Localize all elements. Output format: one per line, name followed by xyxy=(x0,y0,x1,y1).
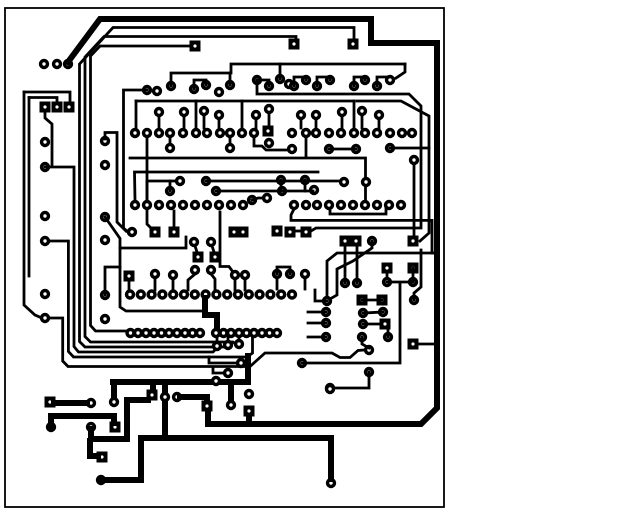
square pad S4 xyxy=(408,236,419,247)
hook F195 xyxy=(188,274,195,290)
via G369b xyxy=(364,367,374,377)
via T377 xyxy=(372,81,382,91)
stub B256 xyxy=(255,119,258,128)
stub B159 xyxy=(158,116,161,128)
via R1-329 xyxy=(324,128,334,138)
via R5-130.5 xyxy=(125,328,135,338)
via B316 xyxy=(311,110,321,120)
square pad F129 xyxy=(124,271,135,282)
via R5-223.5 xyxy=(218,328,228,338)
via R2-292 xyxy=(287,144,297,154)
stub B184 xyxy=(183,116,186,128)
via R1-147 xyxy=(142,128,152,138)
hook F3 xyxy=(277,267,290,274)
via B204 xyxy=(199,106,209,116)
zig wire R2 xyxy=(254,137,287,150)
stub G239 xyxy=(238,337,241,341)
via T354 xyxy=(349,81,359,91)
via R3-159 xyxy=(154,200,164,210)
via N330b xyxy=(325,384,335,394)
bus y191 xyxy=(216,190,313,193)
square pad K1 xyxy=(382,263,393,274)
via R1-390 xyxy=(385,128,395,138)
via R4-184 xyxy=(179,289,189,299)
via L6 xyxy=(40,313,50,323)
via M2 xyxy=(100,160,110,170)
stub B269 xyxy=(268,113,271,128)
stub F235 xyxy=(234,279,237,290)
via R1-135 xyxy=(130,128,140,138)
via L3 xyxy=(40,211,50,221)
via R1-207 xyxy=(202,128,212,138)
via R2e xyxy=(409,155,419,165)
via R5-177 xyxy=(172,328,182,338)
via R1-341 xyxy=(336,128,346,138)
via N114 xyxy=(109,397,119,407)
via F305 xyxy=(300,269,310,279)
wire to via F235 xyxy=(220,212,233,272)
via G228b xyxy=(223,368,233,378)
wire K4 up xyxy=(356,241,359,283)
stub R2a xyxy=(169,137,172,144)
square pad D290 xyxy=(285,227,296,238)
via N91b xyxy=(86,422,96,432)
via R5-231 xyxy=(226,328,236,338)
via K12 xyxy=(321,307,331,317)
thick stub b2 xyxy=(150,382,156,391)
thick wire N91b xyxy=(91,400,148,439)
bus y158 xyxy=(130,158,366,200)
via K18 xyxy=(378,307,388,317)
stub T280 xyxy=(279,64,282,79)
via C305-180 xyxy=(300,175,310,185)
via R3-147 xyxy=(142,200,152,210)
wire K3 up xyxy=(344,241,347,283)
via R5-200 xyxy=(195,328,205,338)
box bus y101 right xyxy=(357,101,429,148)
via R1-170 xyxy=(165,128,175,138)
via R3-365 xyxy=(360,200,370,210)
via T365 xyxy=(360,75,370,85)
via R1-230 xyxy=(225,128,235,138)
via F155 xyxy=(150,269,160,279)
via R5-216 xyxy=(211,328,221,338)
square pad S3 xyxy=(190,41,201,52)
square pad P2 xyxy=(52,102,63,113)
wire from P1 xyxy=(45,111,52,166)
via L4 xyxy=(40,236,50,246)
via R4-227.2 xyxy=(222,289,232,299)
via C170-191 xyxy=(165,186,175,196)
bus y181 xyxy=(206,180,340,183)
stub K1 xyxy=(386,272,389,278)
wire from via R2e xyxy=(413,164,416,236)
square pad N50 xyxy=(45,397,56,408)
stub N2-ring xyxy=(432,252,437,255)
square pad N102 xyxy=(97,452,108,463)
via R4-292 xyxy=(287,289,297,299)
via G302 xyxy=(297,358,307,368)
via D194 xyxy=(189,237,199,247)
wire L2 wrap xyxy=(45,167,217,352)
via R4-248.8 xyxy=(244,289,254,299)
via R5-192.5 xyxy=(187,328,197,338)
via R5-138 xyxy=(133,328,143,338)
wire C1 xyxy=(147,181,175,200)
via R3-243 xyxy=(238,200,248,210)
via R1-254 xyxy=(249,128,259,138)
top bus wire y64 xyxy=(171,64,405,86)
wire R2d to S4 xyxy=(390,148,429,241)
via T206 xyxy=(201,80,211,90)
square pad N152 xyxy=(147,390,158,401)
via K21 xyxy=(357,332,367,342)
via R1-220 xyxy=(215,128,225,138)
via R4-140.8 xyxy=(136,289,146,299)
wire D290-D306 xyxy=(296,230,301,233)
stub D211 xyxy=(212,246,214,252)
via C252-200 xyxy=(247,195,257,205)
via M6 xyxy=(100,314,110,324)
left long wire xyxy=(24,92,42,318)
via R5-154 xyxy=(149,328,159,338)
bus y214 xyxy=(330,209,386,214)
stub D194 xyxy=(195,246,197,252)
via R3-353 xyxy=(348,200,358,210)
via K4 xyxy=(352,278,362,288)
via A2 xyxy=(52,59,62,69)
via C216-191 xyxy=(211,186,221,196)
square pad D243 xyxy=(238,227,249,238)
thick wire N50-N91 xyxy=(54,400,87,406)
tap wire to via G241 xyxy=(209,357,236,363)
wire M1-M7 xyxy=(105,133,126,232)
via F245 xyxy=(240,270,250,280)
wire K5-K6 xyxy=(387,281,413,284)
via R1-402 xyxy=(397,128,407,138)
via R2-230 xyxy=(225,143,235,153)
via B159 xyxy=(154,107,164,117)
stub B379 xyxy=(378,119,381,128)
square pad N207 xyxy=(202,401,213,412)
wire K19-K20 xyxy=(363,323,380,326)
via R3-401 xyxy=(396,200,406,210)
via R4-130 xyxy=(125,289,135,299)
via F235 xyxy=(230,270,240,280)
via L1 xyxy=(40,137,50,147)
stub F305 xyxy=(304,278,307,289)
via D211 xyxy=(206,237,216,247)
via F195 xyxy=(190,265,200,275)
square pad N115 xyxy=(110,422,121,433)
via R4-216.4 xyxy=(211,289,221,299)
via K6 xyxy=(408,277,418,287)
via T269 xyxy=(264,81,274,91)
via R1-306 xyxy=(301,128,311,138)
via R3-389 xyxy=(384,200,394,210)
via B379 xyxy=(374,110,384,120)
hook H1 xyxy=(294,77,306,86)
stub box a xyxy=(135,101,138,129)
via K9 xyxy=(367,236,377,246)
via K3 xyxy=(340,278,350,288)
via R5-239 xyxy=(234,328,244,338)
stub K11 xyxy=(315,290,327,301)
via R2-329 xyxy=(324,144,334,154)
long wire M3 frame xyxy=(105,217,204,311)
stub via R1-306 xyxy=(305,137,308,157)
via T157 xyxy=(152,86,162,96)
thick wire N177-ring xyxy=(180,397,207,403)
wire K9 diag xyxy=(330,241,372,299)
tap wire to via G228b xyxy=(213,367,224,373)
stub G217 xyxy=(216,337,219,342)
via R1-242 xyxy=(237,128,247,138)
via T289 xyxy=(284,79,294,89)
via M5 xyxy=(100,290,110,300)
via K5 xyxy=(382,277,392,287)
square pad P3 xyxy=(64,102,75,113)
via R3-207 xyxy=(202,200,212,210)
via N177 xyxy=(172,392,182,402)
via A1 xyxy=(39,59,49,69)
stub F277 xyxy=(276,278,279,289)
via R2-269 xyxy=(264,138,274,148)
via R4-205.6 xyxy=(200,289,210,299)
via T330 xyxy=(325,75,335,85)
via T390 xyxy=(385,75,395,85)
via T317 xyxy=(312,81,322,91)
via T230 xyxy=(225,80,235,90)
via N165 xyxy=(160,392,170,402)
wire to via T147 xyxy=(124,90,148,232)
square pad K20 xyxy=(380,319,391,330)
wire to P3 xyxy=(24,92,70,101)
wire K15-K16 xyxy=(362,299,382,302)
via B301 xyxy=(296,110,306,120)
via R2-170 xyxy=(165,143,175,153)
stub D174 xyxy=(173,211,176,226)
via G217 xyxy=(212,341,222,351)
via M3 xyxy=(100,212,110,222)
stub box c xyxy=(241,101,244,129)
stub C305 xyxy=(304,180,307,191)
stub B362 xyxy=(361,115,364,128)
bus y172 xyxy=(135,172,319,200)
via K10 xyxy=(409,295,419,305)
wire y94 xyxy=(257,80,421,231)
via R1-412 xyxy=(407,128,417,138)
stub F245 xyxy=(244,279,247,290)
via T294 xyxy=(289,81,299,91)
via N216 xyxy=(211,376,221,386)
square pad D277 xyxy=(272,226,283,237)
stub K22 xyxy=(387,320,390,337)
square pad D306 xyxy=(301,227,312,238)
via T194 xyxy=(189,84,199,94)
wire R2c xyxy=(329,148,356,151)
via R1-292 xyxy=(287,128,297,138)
hook H6 xyxy=(257,80,269,86)
stub K12 xyxy=(308,311,326,314)
via R4-259.6 xyxy=(254,289,264,299)
via F277 xyxy=(272,269,282,279)
wire from via M5 xyxy=(105,267,120,295)
via R4-194.8 xyxy=(190,289,200,299)
square pad D234 xyxy=(229,227,240,238)
via R5-246.5 xyxy=(241,328,251,338)
ring line 2 xyxy=(80,28,355,348)
square pad N249b xyxy=(244,406,255,417)
stub R2b xyxy=(229,137,232,144)
square pad K15 xyxy=(357,295,368,306)
long wrap wire from via L4 xyxy=(45,318,364,367)
via C180-181 xyxy=(175,176,185,186)
via R5-269.5 xyxy=(264,328,274,338)
thick stub b1 xyxy=(111,382,117,399)
via K14 xyxy=(321,332,331,342)
wire K21 xyxy=(362,337,369,348)
ring stub wire xyxy=(246,414,252,423)
thick branch N102 xyxy=(90,441,98,456)
stub B204 xyxy=(203,115,206,128)
hook H3 xyxy=(354,77,365,86)
via B269 xyxy=(264,104,274,114)
via T306 xyxy=(301,75,311,85)
via F290 xyxy=(285,269,295,279)
square pad P1 xyxy=(40,102,51,113)
ring line 3 xyxy=(85,37,296,346)
wrap wire 2 xyxy=(45,241,253,357)
via T171 xyxy=(166,81,176,91)
stub F129 xyxy=(128,281,131,290)
square pad R1s xyxy=(263,126,274,137)
wire to P2 xyxy=(29,98,57,102)
via F173 xyxy=(168,270,178,280)
via R1-183 xyxy=(178,128,188,138)
via M4 xyxy=(100,235,110,245)
via R4-173.2 xyxy=(168,289,178,299)
via R4-281.2 xyxy=(276,289,286,299)
via R3-135 xyxy=(130,200,140,210)
via R3-195 xyxy=(190,200,200,210)
via R3-329 xyxy=(324,200,334,210)
stub C2 xyxy=(169,181,172,191)
square pad S1 xyxy=(348,39,359,50)
via T280 xyxy=(275,74,285,84)
via T147 xyxy=(142,85,152,95)
ring line 4 xyxy=(91,46,196,331)
via C281-180 xyxy=(276,175,286,185)
via R3-306 xyxy=(301,200,311,210)
via R5-146 xyxy=(141,328,151,338)
stub box d xyxy=(353,101,356,129)
via R3-219 xyxy=(214,200,224,210)
via R5-169 xyxy=(164,328,174,338)
stub F155 xyxy=(154,278,157,290)
thick stub b5 xyxy=(245,356,251,382)
via R2-356 xyxy=(351,144,361,154)
via K22 xyxy=(383,332,393,342)
square pad D174 xyxy=(169,227,180,238)
thick ring trace xyxy=(68,19,437,424)
via R3-294 xyxy=(289,200,299,210)
hook H5 xyxy=(194,80,206,89)
via K17 xyxy=(358,308,368,318)
via C206-181 xyxy=(201,176,211,186)
via T219 xyxy=(214,87,224,97)
thick zig wire xyxy=(205,298,217,327)
stub box b xyxy=(195,101,198,129)
via R3-341 xyxy=(336,200,346,210)
via B362 xyxy=(357,106,367,116)
wire K10 up xyxy=(414,250,421,300)
via N331 xyxy=(326,478,336,488)
wire G302 up xyxy=(302,283,400,363)
via R3-231 xyxy=(226,200,236,210)
thick stub b4 xyxy=(228,382,234,402)
stub G228 xyxy=(227,337,230,341)
via F211 xyxy=(206,265,216,275)
via L2 xyxy=(40,162,50,172)
box bus y101 xyxy=(136,100,354,103)
via R3-183 xyxy=(178,200,188,210)
stub C281 xyxy=(280,180,283,191)
via C344 xyxy=(339,177,349,187)
via R3-317 xyxy=(312,200,322,210)
thick bar wire xyxy=(113,379,248,385)
wire K17-K18 xyxy=(363,312,383,313)
via R3-171 xyxy=(166,200,176,210)
hook H2 xyxy=(317,77,330,86)
via M1 xyxy=(100,136,110,146)
thick wire N51-N115 xyxy=(51,416,114,426)
stub B219 xyxy=(218,119,221,128)
via G228 xyxy=(223,340,233,350)
hook C252 xyxy=(252,198,264,200)
stub B342 xyxy=(341,116,344,128)
via M7 xyxy=(127,227,137,237)
via N91 xyxy=(86,398,96,408)
square pad S2 xyxy=(289,39,300,50)
stub K2 xyxy=(412,268,415,282)
via R1-196 xyxy=(191,128,201,138)
via N51 xyxy=(46,422,56,432)
via G330 xyxy=(325,383,335,393)
square pad K16 xyxy=(377,295,388,306)
square pad K7 xyxy=(340,236,351,247)
via N101 xyxy=(96,475,106,485)
stub K14 xyxy=(308,336,326,339)
square pad K8 xyxy=(351,236,362,247)
thick stub b3 xyxy=(162,382,168,438)
stub B301 xyxy=(300,119,303,128)
via L5 xyxy=(40,289,50,299)
stub B316 xyxy=(315,119,318,128)
via G239 xyxy=(234,339,244,349)
board outline xyxy=(5,8,444,507)
square pad E198 xyxy=(193,252,204,263)
via N231 xyxy=(226,400,236,410)
stub K13 xyxy=(308,322,326,325)
via K11 xyxy=(322,296,332,306)
wire K23 to ring xyxy=(418,343,436,346)
via B342 xyxy=(337,107,347,117)
via R4-151.6 xyxy=(146,289,156,299)
square pad M8 xyxy=(150,227,161,238)
via R4-238 xyxy=(233,289,243,299)
via C267-198 xyxy=(262,193,272,203)
